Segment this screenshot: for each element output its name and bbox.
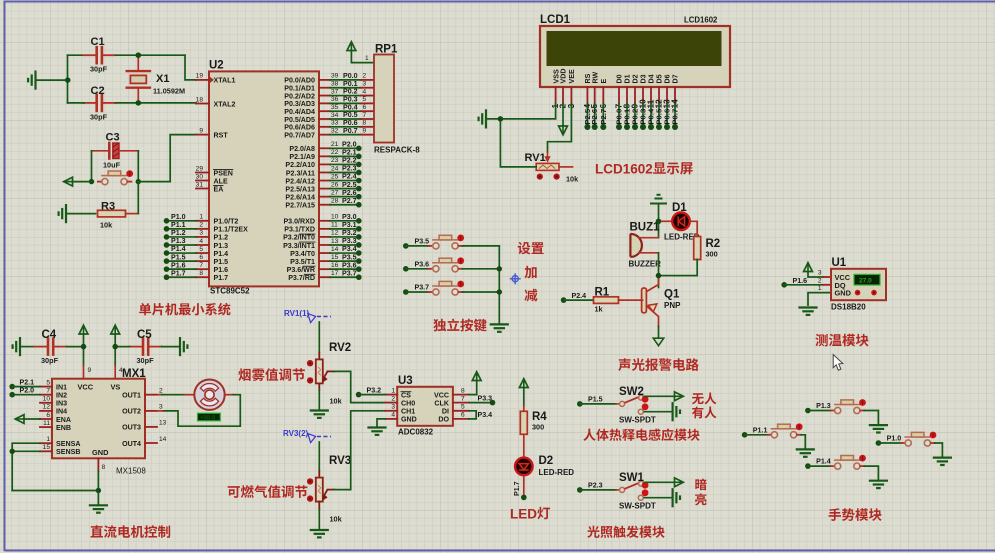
wire buz to collector xyxy=(658,253,660,288)
svg-text:BUZZER: BUZZER xyxy=(629,260,662,269)
wire net P0.7 xyxy=(330,134,361,136)
resistor pack RP1 body xyxy=(374,55,394,143)
wire net P3.0 xyxy=(330,220,359,222)
svg-text:30pF: 30pF xyxy=(90,65,108,74)
svg-text:P2.4/A12: P2.4/A12 xyxy=(285,177,315,185)
pin P2.4/A12 stub xyxy=(319,180,330,182)
svg-text:OUT2: OUT2 xyxy=(122,408,141,416)
svg-text:21: 21 xyxy=(331,141,339,148)
wire RV2 wiper red xyxy=(328,370,335,372)
adc chip U3 body xyxy=(397,387,453,426)
ground C5 right xyxy=(180,338,187,355)
pin P1.5 stub xyxy=(196,260,209,262)
svg-text:5: 5 xyxy=(199,246,203,253)
wire lcd RW xyxy=(594,104,596,128)
wire P1.4 to button xyxy=(808,465,831,467)
node P1.3 dot xyxy=(164,242,170,248)
svg-text:P2.1: P2.1 xyxy=(342,149,357,157)
svg-text:LCD1: LCD1 xyxy=(540,14,571,26)
wire button bus xyxy=(498,246,500,325)
svg-text:IN3: IN3 xyxy=(56,400,67,408)
pin P3.3/INT1 stub xyxy=(319,244,330,246)
wire motor loop xyxy=(163,395,240,427)
wire ENA xyxy=(24,418,40,420)
ground R3 xyxy=(59,205,66,222)
wire C5 gnd xyxy=(162,346,181,348)
origin marker xyxy=(510,273,521,284)
node P3.4 dot xyxy=(356,250,362,256)
ground Q1 triangle xyxy=(653,338,663,346)
svg-text:4: 4 xyxy=(199,238,203,245)
node P1.1 dot xyxy=(742,432,748,438)
power arrow SW1 xyxy=(675,478,684,487)
transistor Q1 emitter xyxy=(647,304,659,317)
wire net P1.1 xyxy=(167,228,197,230)
resistor R1 xyxy=(594,297,619,304)
node P1.4 dot xyxy=(805,463,811,469)
svg-text:2: 2 xyxy=(199,222,203,229)
svg-text:30pF: 30pF xyxy=(41,356,59,365)
ground U1 xyxy=(800,308,817,315)
wire net P2.2 xyxy=(330,163,359,165)
wire OUT2 ext xyxy=(157,410,163,412)
svg-text:3: 3 xyxy=(391,404,395,411)
wire X1 top lead xyxy=(137,55,139,71)
wire RV2 top red xyxy=(318,353,320,360)
svg-text:14: 14 xyxy=(331,246,339,253)
node P0.4 dot xyxy=(648,124,654,130)
pin RP1 pin2 stub xyxy=(361,79,374,81)
wire lcd D1 xyxy=(626,104,628,128)
ground left of rail xyxy=(28,72,35,89)
svg-text:P0.4: P0.4 xyxy=(343,103,358,111)
junction overlay xyxy=(656,273,661,278)
svg-text:P1.4: P1.4 xyxy=(171,245,186,253)
svg-text:P3.1: P3.1 xyxy=(342,221,357,229)
power arrow reset xyxy=(64,177,73,186)
svg-text:DS18B20: DS18B20 xyxy=(831,303,866,312)
svg-text:P1.3: P1.3 xyxy=(171,237,186,245)
svg-text:P2.1: P2.1 xyxy=(20,379,35,387)
node dot SW1 pole xyxy=(577,487,583,493)
capacitor C5 xyxy=(130,339,162,355)
wire net P2.6 xyxy=(330,196,359,198)
node P3.2 dot xyxy=(356,234,362,240)
wire VCC down green xyxy=(83,347,85,366)
node P0.6 dot xyxy=(664,124,670,130)
svg-text:16: 16 xyxy=(331,262,339,269)
potentiometer RV3 body xyxy=(316,478,323,502)
wire net P1.3 xyxy=(167,244,197,246)
wire VS down green xyxy=(114,347,116,366)
node P1.7 dot xyxy=(521,495,527,501)
title MCU minimal system xyxy=(139,303,230,316)
RV2 body mark xyxy=(318,367,321,375)
RV2 terminal dot top xyxy=(307,360,313,366)
svg-text:P3.4: P3.4 xyxy=(478,411,493,419)
pin XTAL2 stub xyxy=(196,103,209,105)
svg-text:P1.1/T2EX: P1.1/T2EX xyxy=(214,226,249,234)
wire R3 right xyxy=(126,213,139,215)
junction C1/X1 xyxy=(136,53,141,58)
wire P1.6 to DQ xyxy=(784,284,823,286)
wire button P1.4 to gnd xyxy=(864,466,878,480)
svg-text:CH1: CH1 xyxy=(401,408,415,416)
wire button P1.0 to gnd xyxy=(935,443,943,457)
overline EA xyxy=(214,185,224,187)
pin MX1 IN2 stub xyxy=(40,394,52,396)
svg-text:27.0: 27.0 xyxy=(859,278,872,285)
pin P2.1/A9 stub xyxy=(319,155,330,157)
wire button P3.6 to bus xyxy=(462,268,499,270)
wire R4 top red xyxy=(523,406,525,411)
svg-text:P1.6: P1.6 xyxy=(214,266,229,274)
lcd pin D0 stub xyxy=(618,87,620,104)
wire C1 row to rail xyxy=(68,54,83,56)
svg-text:P3.4: P3.4 xyxy=(342,245,357,253)
pin P0.3/AD3 stub xyxy=(319,102,330,104)
wire P1.0 to button xyxy=(878,442,901,444)
svg-text:30pF: 30pF xyxy=(137,356,155,365)
wire RV2 top xyxy=(318,322,320,353)
svg-text:8: 8 xyxy=(199,270,203,277)
motor body xyxy=(194,380,224,410)
svg-text:25: 25 xyxy=(331,173,339,180)
wire C4 gnd xyxy=(20,346,33,348)
reset button xyxy=(98,170,133,185)
svg-text:300: 300 xyxy=(532,423,544,432)
ground SW1 xyxy=(673,489,680,506)
wire net P3.3 xyxy=(330,244,359,246)
svg-text:P0.1: P0.1 xyxy=(343,80,358,88)
svg-text:2: 2 xyxy=(159,388,163,395)
u1 display xyxy=(854,274,880,285)
pin P1.3 stub xyxy=(196,244,209,246)
node P0.7 dot xyxy=(672,124,678,130)
svg-text:VEE: VEE xyxy=(568,69,576,83)
svg-text:7: 7 xyxy=(363,112,367,119)
lcd screen xyxy=(547,31,722,66)
svg-text:P1.0: P1.0 xyxy=(171,213,186,221)
wire C3 left drop xyxy=(91,151,93,182)
svg-text:7: 7 xyxy=(461,395,465,402)
button P3.5 xyxy=(429,235,464,250)
svg-text:10k: 10k xyxy=(330,515,343,524)
wire X1 bottom lead xyxy=(137,88,139,103)
svg-text:LED: LED xyxy=(510,507,537,522)
svg-text:P0.7: P0.7 xyxy=(671,109,680,125)
svg-text:RST: RST xyxy=(214,131,229,139)
lcd pin D2 stub xyxy=(634,87,636,104)
power arrow U3 xyxy=(472,372,481,381)
wire SENSB xyxy=(12,450,40,452)
ground U3 xyxy=(369,428,386,435)
title motor control xyxy=(91,525,171,538)
wire net P0.2 xyxy=(330,95,361,97)
svg-text:D3: D3 xyxy=(640,74,648,83)
wire P3.6 to button xyxy=(406,268,429,270)
svg-text:GND: GND xyxy=(835,289,852,298)
wire net P1.2 xyxy=(167,236,197,238)
svg-text:GND: GND xyxy=(401,416,417,424)
pin U3 VCC stub xyxy=(453,394,469,396)
wire lcd D5 xyxy=(658,104,660,128)
svg-text:P3.4/T0: P3.4/T0 xyxy=(290,250,315,258)
pin P3.1/TXD stub xyxy=(319,228,330,230)
node P1.5 dot xyxy=(164,258,170,264)
node P1.4 dot xyxy=(164,250,170,256)
svg-text:STC89C52: STC89C52 xyxy=(210,287,250,296)
capacitor C3 xyxy=(109,143,119,159)
svg-text:U2: U2 xyxy=(209,60,224,72)
lcd pin E stub xyxy=(602,87,604,104)
svg-text:5: 5 xyxy=(363,96,367,103)
svg-text:LED-RED: LED-RED xyxy=(539,468,575,477)
svg-text:2: 2 xyxy=(391,395,395,402)
potentiometer RV2 body xyxy=(316,359,323,383)
junction C2/X1 xyxy=(136,100,141,105)
svg-text:1: 1 xyxy=(199,214,203,221)
svg-text:ENB: ENB xyxy=(56,424,71,432)
wire net P3.5 xyxy=(330,260,359,262)
svg-text:30: 30 xyxy=(196,173,204,180)
svg-text:10: 10 xyxy=(43,396,51,403)
svg-text:P1.3: P1.3 xyxy=(214,242,229,250)
wire lcd VSS xyxy=(500,104,555,119)
junction bus P3.7 xyxy=(497,289,502,294)
wire P2.4 to R1 xyxy=(564,299,594,301)
svg-text:4: 4 xyxy=(363,88,367,95)
svg-text:D2: D2 xyxy=(632,74,640,83)
svg-text:CH0: CH0 xyxy=(401,399,415,407)
title LED lamp xyxy=(510,507,550,522)
svg-text:31: 31 xyxy=(196,181,204,188)
pin U3 GND stub xyxy=(385,418,397,420)
button P1.4 xyxy=(831,455,866,470)
pin RP1 pin5 stub xyxy=(361,102,374,104)
node P2.0 dot xyxy=(9,392,15,398)
svg-text:P3.5: P3.5 xyxy=(342,253,357,261)
svg-text:P1.3: P1.3 xyxy=(816,402,831,410)
wire RV1 right xyxy=(559,166,573,168)
wire net P2.4 xyxy=(330,180,359,182)
junction gnd rail xyxy=(96,488,101,493)
lcd pin VEE stub xyxy=(570,87,572,104)
op chip U2 body xyxy=(209,71,319,286)
svg-text:VDD: VDD xyxy=(560,69,568,84)
svg-text:P3.6: P3.6 xyxy=(342,261,357,269)
junction C5 VS xyxy=(113,344,118,349)
wire R1 to base xyxy=(619,299,643,301)
svg-text:P3.6/WR: P3.6/WR xyxy=(287,266,315,274)
wire C3 right xyxy=(119,150,138,152)
pin P3.4/T0 stub xyxy=(319,252,330,254)
svg-text:6: 6 xyxy=(461,412,465,419)
title set xyxy=(518,242,544,255)
svg-text:1: 1 xyxy=(818,285,822,292)
node P3.7 dot xyxy=(356,274,362,280)
svg-text:P0.1/AD1: P0.1/AD1 xyxy=(284,85,315,93)
wire emitter down xyxy=(658,317,660,327)
svg-text:P1.7: P1.7 xyxy=(171,269,186,277)
wire P1.1 to button xyxy=(745,434,768,436)
svg-text:D7: D7 xyxy=(672,74,680,83)
node P1.6 dot xyxy=(781,282,787,288)
title somebody xyxy=(692,406,717,418)
wire lcd D4 xyxy=(650,104,652,128)
svg-text:SW-SPDT: SW-SPDT xyxy=(619,502,656,511)
node P2.7 dot xyxy=(356,202,362,208)
svg-text:RV1(1): RV1(1) xyxy=(284,309,310,318)
junction lcd vss xyxy=(498,116,503,121)
wire net P0.0 xyxy=(330,79,361,81)
junction bus P3.6 xyxy=(497,266,502,271)
lcd pin RS stub xyxy=(586,87,588,104)
svg-text:P2.7: P2.7 xyxy=(599,109,608,125)
svg-text:15: 15 xyxy=(43,444,51,451)
wire P3.2 to CS xyxy=(359,394,385,396)
overline PSEN xyxy=(214,169,233,171)
power arrow VS MX1 xyxy=(111,325,120,334)
svg-text:9: 9 xyxy=(88,367,92,374)
pin RP1 pin3 stub xyxy=(361,87,374,89)
svg-text:P1.7: P1.7 xyxy=(513,481,521,496)
wire SW1 pole pole xyxy=(580,489,616,491)
svg-text:P2.2: P2.2 xyxy=(342,157,357,165)
wire net P1.5 xyxy=(167,260,197,262)
svg-text:D0: D0 xyxy=(616,74,624,83)
svg-text:P2.7/A15: P2.7/A15 xyxy=(285,202,315,210)
wire P1.3 to button xyxy=(808,410,831,412)
wire net P1.7 xyxy=(167,276,197,278)
wire SW2 bottom throw xyxy=(644,411,672,413)
pin P3.7/RD stub xyxy=(319,276,330,278)
pin MX1 OUT3 stub xyxy=(145,426,157,428)
svg-text:P2.4: P2.4 xyxy=(342,173,357,181)
pin MX1 IN4 stub xyxy=(40,410,52,412)
svg-text:P2.3: P2.3 xyxy=(342,165,357,173)
svg-text:P3.5/T1: P3.5/T1 xyxy=(290,258,315,266)
pin U3 DI stub xyxy=(453,410,469,412)
svg-text:LCD1602: LCD1602 xyxy=(595,162,653,177)
wire net P0.5 xyxy=(330,118,361,120)
pin MX1 SENSA stub xyxy=(40,442,52,444)
title bright xyxy=(695,493,706,505)
svg-text:P0.3/AD3: P0.3/AD3 xyxy=(284,100,315,108)
svg-text:OUT3: OUT3 xyxy=(122,424,141,432)
lcd pin D1 stub xyxy=(626,87,628,104)
svg-text:U3: U3 xyxy=(398,375,413,387)
wire button P1.3 to gnd xyxy=(864,411,878,425)
wire RV3 wiper xyxy=(334,411,385,490)
wire net P1.0 xyxy=(167,220,197,222)
button P3.6 xyxy=(429,257,464,272)
node P1.6 dot xyxy=(164,266,170,272)
svg-text:RW: RW xyxy=(591,72,599,84)
svg-text:P1.6: P1.6 xyxy=(171,261,186,269)
pin U3 CH1 stub xyxy=(385,410,397,412)
svg-text:P3.7/RD: P3.7/RD xyxy=(288,274,315,282)
svg-text:P0.0/AD0: P0.0/AD0 xyxy=(284,77,315,85)
node P3.6 dot xyxy=(403,266,409,272)
wire net P0.3 xyxy=(330,102,361,104)
svg-text:12: 12 xyxy=(331,230,339,237)
switch SW2 pole xyxy=(616,395,649,414)
svg-text:P2.1/A9: P2.1/A9 xyxy=(289,153,315,161)
node P1.2 dot xyxy=(164,234,170,240)
wire SW1 top throw xyxy=(645,481,675,483)
node P0.5 dot xyxy=(656,124,662,130)
wire R2 bottom xyxy=(659,260,698,276)
lcd LCD1 body xyxy=(540,26,730,87)
svg-text:CS: CS xyxy=(401,391,411,399)
svg-text:R1: R1 xyxy=(595,287,610,299)
svg-text:1: 1 xyxy=(46,436,50,443)
svg-text:P3.2/INT0: P3.2/INT0 xyxy=(283,234,315,242)
wire RV3 bottom xyxy=(318,509,320,529)
svg-text:C4: C4 xyxy=(42,329,57,341)
title plus xyxy=(524,266,536,278)
wire P2.1 xyxy=(12,386,40,388)
svg-text:RESPACK-8: RESPACK-8 xyxy=(374,146,420,155)
svg-text:1: 1 xyxy=(365,55,369,62)
svg-text:8: 8 xyxy=(102,464,106,471)
svg-text:24: 24 xyxy=(331,165,339,172)
svg-text:37: 37 xyxy=(331,88,339,95)
svg-text:P0.2: P0.2 xyxy=(343,88,358,96)
pin MX1 IN3 stub xyxy=(40,402,52,404)
pin P2.5/A13 stub xyxy=(319,188,330,190)
pin P0.5/AD5 stub xyxy=(319,118,330,120)
node P1.3 dot xyxy=(805,408,811,414)
buzzer BUZ1 xyxy=(630,234,642,257)
pin P2.7/A15 stub xyxy=(319,204,330,206)
lcd pin D5 stub xyxy=(658,87,660,104)
svg-text:P0.4/AD4: P0.4/AD4 xyxy=(284,108,315,116)
pin P3.5/T1 stub xyxy=(319,260,330,262)
wire reset to arrow xyxy=(73,181,92,183)
led D2 xyxy=(515,458,533,476)
svg-text:P3.3/INT1: P3.3/INT1 xyxy=(283,242,315,250)
wire lcd VDD xyxy=(562,104,564,127)
pin P0.7/AD7 stub xyxy=(319,134,330,136)
wire net P2.1 xyxy=(330,155,359,157)
pin P2.3/A11 stub xyxy=(319,171,330,173)
node P2.4 dot xyxy=(561,297,567,303)
svg-text:GND: GND xyxy=(92,448,109,457)
lcd pin D7 stub xyxy=(674,87,676,104)
pin P2.0/A8 stub xyxy=(319,147,330,149)
junction overlay xyxy=(113,344,118,349)
title gas adjust xyxy=(228,485,308,498)
wire D1 to R2 xyxy=(690,221,697,236)
pin XTAL1 arrow xyxy=(210,77,215,84)
svg-text:C1: C1 xyxy=(91,36,105,48)
node P2.0 dot xyxy=(356,146,362,152)
pin U3 CH0 stub xyxy=(385,402,397,404)
wire lcd D2 xyxy=(634,104,636,128)
svg-text:12: 12 xyxy=(43,404,51,411)
potentiometer RV1 body xyxy=(536,163,559,170)
node P3.6 dot xyxy=(356,266,362,272)
node P2.5 dot xyxy=(584,124,590,130)
svg-text:P1.4: P1.4 xyxy=(214,250,229,258)
wire reset node right xyxy=(138,135,196,182)
svg-text:D4: D4 xyxy=(648,74,656,83)
svg-text:Q1: Q1 xyxy=(664,289,680,301)
node P0.2 dot xyxy=(632,124,638,130)
svg-text:LCD1602: LCD1602 xyxy=(684,16,718,25)
